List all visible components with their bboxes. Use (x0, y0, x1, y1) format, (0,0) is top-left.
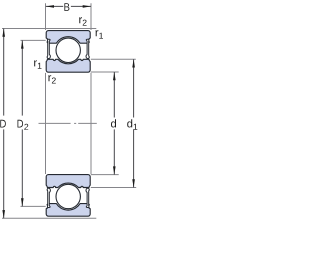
label d1 (127, 119, 137, 129)
label r2 left lower (48, 75, 55, 83)
label B (64, 3, 69, 11)
label r1 top right (96, 30, 103, 38)
d1 extension bottom (91, 187, 136, 189)
dimension line d lower part (113, 129, 115, 174)
D2 extension bottom (21, 205, 46, 207)
dimension line d upper part (113, 72, 115, 118)
D2 extension top (21, 39, 46, 41)
label D (0, 120, 6, 128)
B extension line right (90, 3, 92, 30)
dimension line D2 upper part (21, 40, 23, 115)
d1 arrow down (132, 179, 135, 187)
dimension line d1 upper part (133, 59, 135, 117)
D2 arrow down (21, 198, 24, 206)
bore silhouette line left (45, 73, 47, 174)
d extension bottom (91, 174, 119, 176)
centerline long dash left (39, 122, 71, 124)
label r1 left (34, 60, 41, 68)
B extension line left (45, 3, 47, 30)
D extension top (2, 28, 96, 30)
D arrow down (2, 210, 5, 218)
dimension line B left segment (46, 5, 63, 7)
centerline long dash right (78, 122, 97, 124)
D arrow up (2, 29, 5, 37)
dimension line d1 lower part (133, 129, 135, 187)
B arrow right (83, 5, 91, 8)
dimension line B right segment (71, 5, 91, 7)
D extension bottom (2, 217, 96, 219)
d arrow up (113, 72, 116, 80)
d1 extension top (91, 58, 136, 60)
d extension top (91, 71, 119, 73)
dimension line D2 lower part (21, 129, 23, 206)
dimension line D lower part (3, 129, 5, 218)
d arrow down (113, 166, 116, 174)
bore silhouette line right (90, 73, 92, 174)
B arrow left (46, 5, 54, 8)
centerline dot (74, 122, 76, 124)
d1 arrow up (132, 59, 135, 67)
label D2 (18, 120, 29, 130)
D2 arrow up (21, 40, 24, 48)
label r2 top (79, 17, 86, 25)
label d (111, 119, 116, 127)
dimension line D upper part (3, 29, 5, 116)
